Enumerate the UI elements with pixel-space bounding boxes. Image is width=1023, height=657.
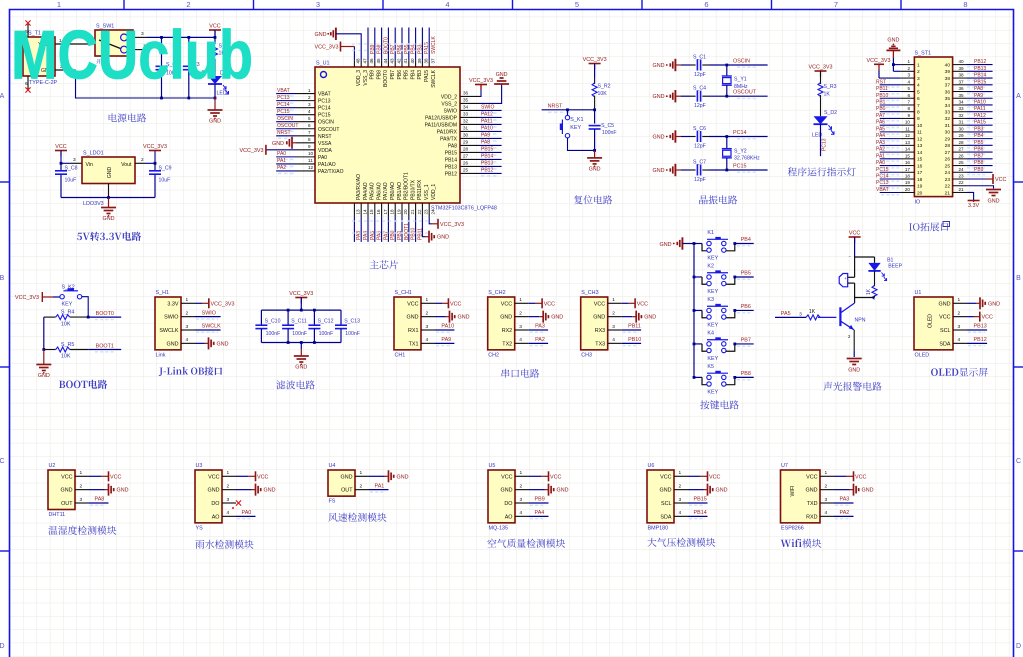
svg-text:GND: GND [272,141,284,147]
ST1 left pin 12 [901,138,915,140]
svg-text:PB5: PB5 [404,70,410,80]
svg-text:VCC: VCC [594,301,605,307]
svg-text:BEEP: BEEP [888,263,902,269]
power symbol VCC_3V3 (indicator) [815,70,827,72]
svg-text:S_C6: S_C6 [693,126,706,132]
svg-text:SWCLK: SWCLK [202,324,222,330]
svg-text:PA1: PA1 [277,158,286,164]
svg-text:12: 12 [917,136,923,142]
svg-text:10uF: 10uF [65,178,77,184]
svg-text:PB9: PB9 [370,70,376,80]
wire PC15 [702,169,709,171]
svg-text:OSCIN: OSCIN [318,120,334,126]
svg-text:9: 9 [907,113,910,118]
svg-text:40: 40 [945,62,951,68]
ground symbol power circuit [214,97,216,110]
svg-text:5: 5 [907,86,910,91]
ST1 left pin 13 [901,144,915,146]
svg-text:PA5: PA5 [876,126,885,132]
svg-text:A: A [1016,93,1021,100]
svg-text:RXD: RXD [806,514,817,520]
svg-text:28: 28 [959,140,965,145]
ST1 left pin 5 [901,91,915,93]
svg-text:GND: GND [862,488,874,494]
capacitor S_C1 [696,60,698,71]
frame tick left [0,366,10,368]
S_CH2 RX wire [529,329,548,331]
ground symbol reset [594,150,596,158]
U2 GND port [89,489,105,491]
svg-text:21: 21 [959,187,965,192]
svg-text:Vout: Vout [121,162,132,168]
svg-text:PA3: PA3 [840,497,850,503]
svg-text:RX3: RX3 [595,328,606,334]
svg-text:32: 32 [463,119,469,124]
svg-text:K1: K1 [707,230,714,236]
compile marks bottom pin band [352,220,431,222]
OLED pin1 GND port [967,302,976,304]
S_CH1 VCC port [435,302,442,304]
connector S_T1 TYPE-C box [23,37,55,76]
U5 GND port [529,489,545,491]
U5 net wire PB9 [529,502,549,504]
svg-text:PB6: PB6 [397,70,403,80]
svg-text:PA1: PA1 [876,153,885,159]
svg-text:GND: GND [341,474,353,480]
svg-text:VCC: VCC [806,474,817,480]
svg-text:PB6: PB6 [974,147,984,153]
indicator R3 wires [820,71,822,84]
svg-text:32: 32 [959,113,965,118]
S_CH3 RX wire [622,329,641,331]
svg-text:2: 2 [227,483,230,489]
svg-text:34: 34 [463,105,469,110]
title Wifi模块 [781,540,792,547]
svg-text:12: 12 [905,133,911,138]
wire VCC to rail [214,30,216,37]
svg-text:PA8: PA8 [95,497,105,503]
capacitor S_C13 [340,310,342,325]
alarm vcc wire [854,237,856,257]
svg-text:U3: U3 [196,463,203,469]
wire VCC rail top [147,36,215,38]
svg-text:BMP180: BMP180 [648,525,669,531]
svg-text:S_C7: S_C7 [693,160,706,166]
svg-text:PA9: PA9 [441,337,451,343]
S_SW1 pin 1 stub [133,49,143,51]
svg-text:PB4: PB4 [974,133,984,139]
title 晶振电路 [699,195,707,204]
connector U2 box [48,470,75,510]
switch S_SW1 box [95,30,133,56]
svg-text:45: 45 [376,58,381,64]
filter top rail [261,309,341,311]
svg-text:12: 12 [308,165,314,170]
power symbol VCC_3V3 (filter) [295,297,307,299]
U3 VCC port [236,475,248,477]
S_SW1 lever [99,40,121,49]
svg-text:VSSA: VSSA [318,141,332,147]
svg-text:PB9: PB9 [974,167,984,173]
svg-text:PB10: PB10 [628,337,641,343]
svg-text:10uF: 10uF [159,178,171,184]
LED S_D2 [814,116,828,124]
svg-text:S_CH1: S_CH1 [395,290,412,296]
filter bottom rail [261,342,341,344]
GND at J-Link pin4 [195,342,205,344]
svg-text:34: 34 [945,103,951,109]
svg-text:PB13: PB13 [974,324,987,330]
svg-text:6: 6 [308,123,311,128]
OLED pin2 VCC port [967,316,974,318]
key K2 net wire PB5 [733,276,736,279]
svg-text:29: 29 [463,140,469,145]
svg-text:2: 2 [520,483,523,489]
svg-text:PA7/AO: PA7/AO [383,182,389,200]
svg-text:PA12/USB/DP: PA12/USB/DP [425,115,458,121]
svg-text:D: D [0,643,5,650]
title 大气压检测模块 [647,538,656,547]
svg-text:6: 6 [917,96,920,102]
resistor S_R5 10K [44,349,56,351]
svg-text:OSCIN: OSCIN [733,59,750,65]
connector S_CH3 box [581,297,608,350]
svg-text:1K: 1K [809,309,816,315]
key K1 [694,243,702,245]
title 雨水检测模块 [195,540,204,549]
svg-text:PA12: PA12 [974,113,986,119]
svg-text:PB14: PB14 [694,510,707,516]
ST1 left pin 2 [901,70,915,72]
svg-text:23: 23 [959,174,965,179]
frame tick right [1014,366,1023,368]
svg-text:VCC_3V3: VCC_3V3 [809,65,833,71]
svg-text:37: 37 [945,83,951,89]
svg-text:44: 44 [383,58,388,64]
ST1 left pin 7 [901,104,915,106]
svg-text:14: 14 [905,147,911,152]
svg-text:10: 10 [917,123,923,129]
ground symbol BOOT [43,350,45,365]
svg-text:7: 7 [834,0,838,9]
svg-text:40: 40 [959,59,965,64]
svg-text:31: 31 [945,123,951,129]
indicator output wire [820,124,822,156]
S_CH3 GND port [622,316,633,318]
svg-text:33: 33 [959,106,965,111]
svg-text:33: 33 [945,110,951,116]
connector U4 box [328,470,355,496]
svg-text:D: D [1016,643,1021,650]
svg-text:YS: YS [196,525,204,531]
svg-text:GND: GND [295,365,307,371]
svg-text:100nF: 100nF [345,331,360,337]
U4 net wire PA1 [369,489,389,491]
svg-text:PC13: PC13 [876,180,889,186]
svg-text:A: A [0,93,5,100]
svg-text:KEY: KEY [707,389,718,395]
U4 GND port [369,475,385,477]
svg-text:35: 35 [959,93,965,98]
svg-text:PB11: PB11 [628,324,641,330]
svg-text:17: 17 [383,209,388,215]
svg-text:30: 30 [959,126,965,131]
svg-text:26: 26 [959,153,965,158]
title 风速检测模块 [328,513,337,522]
svg-text:S_C13: S_C13 [344,318,360,324]
svg-text:VCC_3V3: VCC_3V3 [289,291,313,297]
svg-text:DHT11: DHT11 [49,512,66,518]
svg-text:GND: GND [38,373,50,379]
svg-text:PA4/AO: PA4/AO [363,182,369,200]
svg-text:3.3V: 3.3V [167,301,178,307]
svg-text:2: 2 [958,310,961,316]
svg-text:23: 23 [945,177,951,183]
svg-text:PB5: PB5 [974,140,984,146]
connector S_H1 box [155,297,181,350]
resistor 1K (alarm load) [874,271,876,286]
svg-text:PA8: PA8 [448,143,457,149]
svg-text:1: 1 [520,470,523,476]
svg-text:K3: K3 [707,297,714,303]
resistor S_R1 1K [214,37,216,44]
svg-text:SWIO: SWIO [481,105,494,111]
svg-text:4: 4 [519,337,522,343]
svg-text:S_K1: S_K1 [570,117,583,123]
svg-text:PB0: PB0 [876,106,886,112]
svg-text:4: 4 [679,510,682,516]
svg-text:PC14: PC14 [733,130,747,136]
svg-text:37: 37 [430,58,435,64]
connector S_CH2 box [488,297,515,350]
capacitor S_C10 [260,310,262,325]
svg-text:25: 25 [463,168,469,173]
ST1 left pin 1 [901,64,915,66]
svg-text:35: 35 [945,96,951,102]
crystal S_Y1 [726,65,728,76]
svg-text:PC14: PC14 [318,106,331,112]
wire OSCIN [702,64,709,66]
no-connect cross SW1 pin1 [143,47,148,52]
svg-text:VCC: VCC [849,231,860,237]
svg-text:TX1: TX1 [409,341,419,347]
svg-text:VCC_3V3: VCC_3V3 [440,222,464,228]
svg-text:B: B [1016,275,1021,282]
svg-text:PA11/USB/DM: PA11/USB/DM [425,122,457,128]
svg-text:NRST: NRST [318,134,332,140]
svg-text:RX1: RX1 [408,328,419,334]
title 电源电路 [109,113,117,122]
svg-text:19: 19 [905,180,911,185]
svg-text:2: 2 [679,483,682,489]
svg-text:1: 1 [227,470,230,476]
junction BOOT0 [87,316,90,319]
svg-text:KEY: KEY [707,256,718,262]
key K3 [693,309,696,312]
svg-text:GND: GND [660,242,672,248]
svg-text:26: 26 [463,161,469,166]
svg-text:PB3: PB3 [417,70,423,80]
svg-text:9: 9 [917,116,920,122]
svg-text:14: 14 [362,209,367,215]
svg-text:S_C5: S_C5 [601,123,614,129]
svg-text:VBAT: VBAT [876,187,889,193]
svg-text:NPN: NPN [855,318,866,324]
VCC_3V3 at J-Link pin1 [195,302,202,304]
ground symbol alarm [847,358,862,360]
ground symbol LDO [108,198,110,208]
svg-text:NRST: NRST [548,104,563,110]
svg-text:32: 32 [945,116,951,122]
svg-text:GND: GND [167,341,179,347]
svg-text:PB8: PB8 [974,160,984,166]
mcu pin 8 VSSA gnd symbol [292,142,296,144]
svg-text:DO: DO [211,501,219,507]
svg-text:DO: DO [504,501,512,507]
title 主芯片 [370,260,379,269]
frame tick right [1014,550,1023,552]
mcu pin36 wire to VCC_3V3 [479,84,481,96]
capacitor S_C2 wires [161,37,163,66]
svg-text:3: 3 [907,73,910,78]
svg-text:3: 3 [73,157,76,163]
svg-text:PB3: PB3 [974,126,984,132]
power symbol VCC [209,29,221,31]
svg-text:25: 25 [945,163,951,169]
svg-text:SDA: SDA [939,341,950,347]
svg-text:GND: GND [551,315,563,321]
svg-text:3: 3 [227,497,230,503]
svg-text:U5: U5 [489,463,496,469]
svg-text:AO: AO [212,514,220,520]
svg-text:S_Y2: S_Y2 [734,148,747,154]
svg-text:46: 46 [369,58,374,64]
svg-text:31: 31 [959,120,965,125]
svg-text:PB1: PB1 [876,99,886,105]
base wire [818,316,836,318]
svg-text:PB6: PB6 [741,304,751,310]
svg-text:NRST: NRST [277,130,291,136]
svg-text:PB9: PB9 [535,497,545,503]
svg-text:PB7: PB7 [741,338,751,344]
ST1 left pin 14 [901,151,915,153]
svg-text:MQ-135: MQ-135 [489,525,508,531]
svg-text:U2: U2 [49,463,56,469]
svg-text:39: 39 [417,58,422,64]
svg-text:1: 1 [519,297,522,303]
frame tick top 1 [123,0,125,10]
svg-text:GND: GND [264,488,276,494]
svg-text:10K: 10K [61,354,71,360]
power symbol VCC (alarm) [849,236,861,238]
svg-text:S_C8: S_C8 [65,166,78,172]
svg-text:KEY: KEY [707,356,718,362]
wire LED to gnd rail [214,84,216,98]
title BOOT电路 [59,381,65,388]
svg-text:VCC: VCC [501,474,512,480]
svg-text:13: 13 [356,209,361,215]
svg-text:100nF: 100nF [266,331,281,337]
svg-text:VCC_3V3: VCC_3V3 [315,44,339,50]
svg-text:100nF: 100nF [602,130,617,136]
svg-text:PA2: PA2 [876,147,885,153]
svg-text:PA15: PA15 [424,70,430,82]
key K1 bottom wire [568,138,595,151]
svg-text:KEY: KEY [570,125,581,131]
svg-text:2: 2 [825,483,828,489]
svg-text:S_C11: S_C11 [291,318,307,324]
svg-text:GND: GND [887,38,899,44]
svg-text:PA2: PA2 [277,165,286,171]
resistor S_R4 10K [44,316,56,318]
svg-text:PC14: PC14 [876,174,889,180]
svg-text:PB4: PB4 [410,70,416,80]
alarm bottom rail [855,297,875,299]
svg-text:VCC: VCC [660,474,671,480]
svg-text:36: 36 [945,89,951,95]
svg-text:GND: GND [557,488,569,494]
svg-text:3: 3 [917,76,920,82]
svg-text:PA4: PA4 [876,133,885,139]
svg-text:12pF: 12pF [694,72,706,78]
U6 VCC port [688,475,700,477]
svg-text:21: 21 [945,190,951,196]
svg-text:16: 16 [376,209,381,215]
svg-text:PA8: PA8 [481,140,490,146]
svg-text:13: 13 [917,143,923,149]
svg-text:GND: GND [217,341,229,347]
svg-text:PA10: PA10 [974,99,986,105]
svg-text:VCC_3V3: VCC_3V3 [240,148,264,154]
svg-text:1: 1 [907,59,910,64]
svg-text:39: 39 [959,66,965,71]
svg-text:3: 3 [316,0,320,9]
svg-text:PB7: PB7 [974,153,984,159]
LDO bottom rail [61,197,155,199]
svg-text:23: 23 [424,209,429,215]
svg-text:VBAT: VBAT [277,88,290,94]
S_CH2 TX wire [529,342,548,344]
ST1 left pin 6 [901,97,915,99]
S_CH2 GND port [529,316,540,318]
svg-text:PB15: PB15 [974,79,986,85]
S_SW1 bottom stub [128,56,130,64]
svg-text:15: 15 [917,157,923,163]
U7 GND port [834,489,850,491]
svg-text:VCC: VCC [855,474,866,480]
resistor S_R3 1K [818,83,823,97]
svg-text:38: 38 [945,76,951,82]
svg-text:PA15: PA15 [974,120,986,126]
U5 VCC port [529,475,541,477]
svg-text:OSCOUT: OSCOUT [277,123,298,129]
svg-text:1: 1 [958,297,961,303]
svg-text:PA2/TX/AO: PA2/TX/AO [318,169,344,175]
svg-text:PA1: PA1 [375,483,385,489]
frame tick left [0,550,10,552]
ST1 left pin 20 [901,191,915,193]
net label BOOT0 wire [88,316,121,318]
capacitor S_C7 [696,165,698,176]
svg-text:8: 8 [308,137,311,142]
mcu pin23 wire to GND [422,217,425,237]
U7 VCC port [834,475,846,477]
svg-text:28: 28 [463,147,469,152]
key K5 [693,376,696,379]
svg-text:PB13: PB13 [974,66,986,72]
svg-text:VCC: VCC [544,301,555,307]
mcu pin 9 VDDA VCC_3V3 port [266,149,296,151]
